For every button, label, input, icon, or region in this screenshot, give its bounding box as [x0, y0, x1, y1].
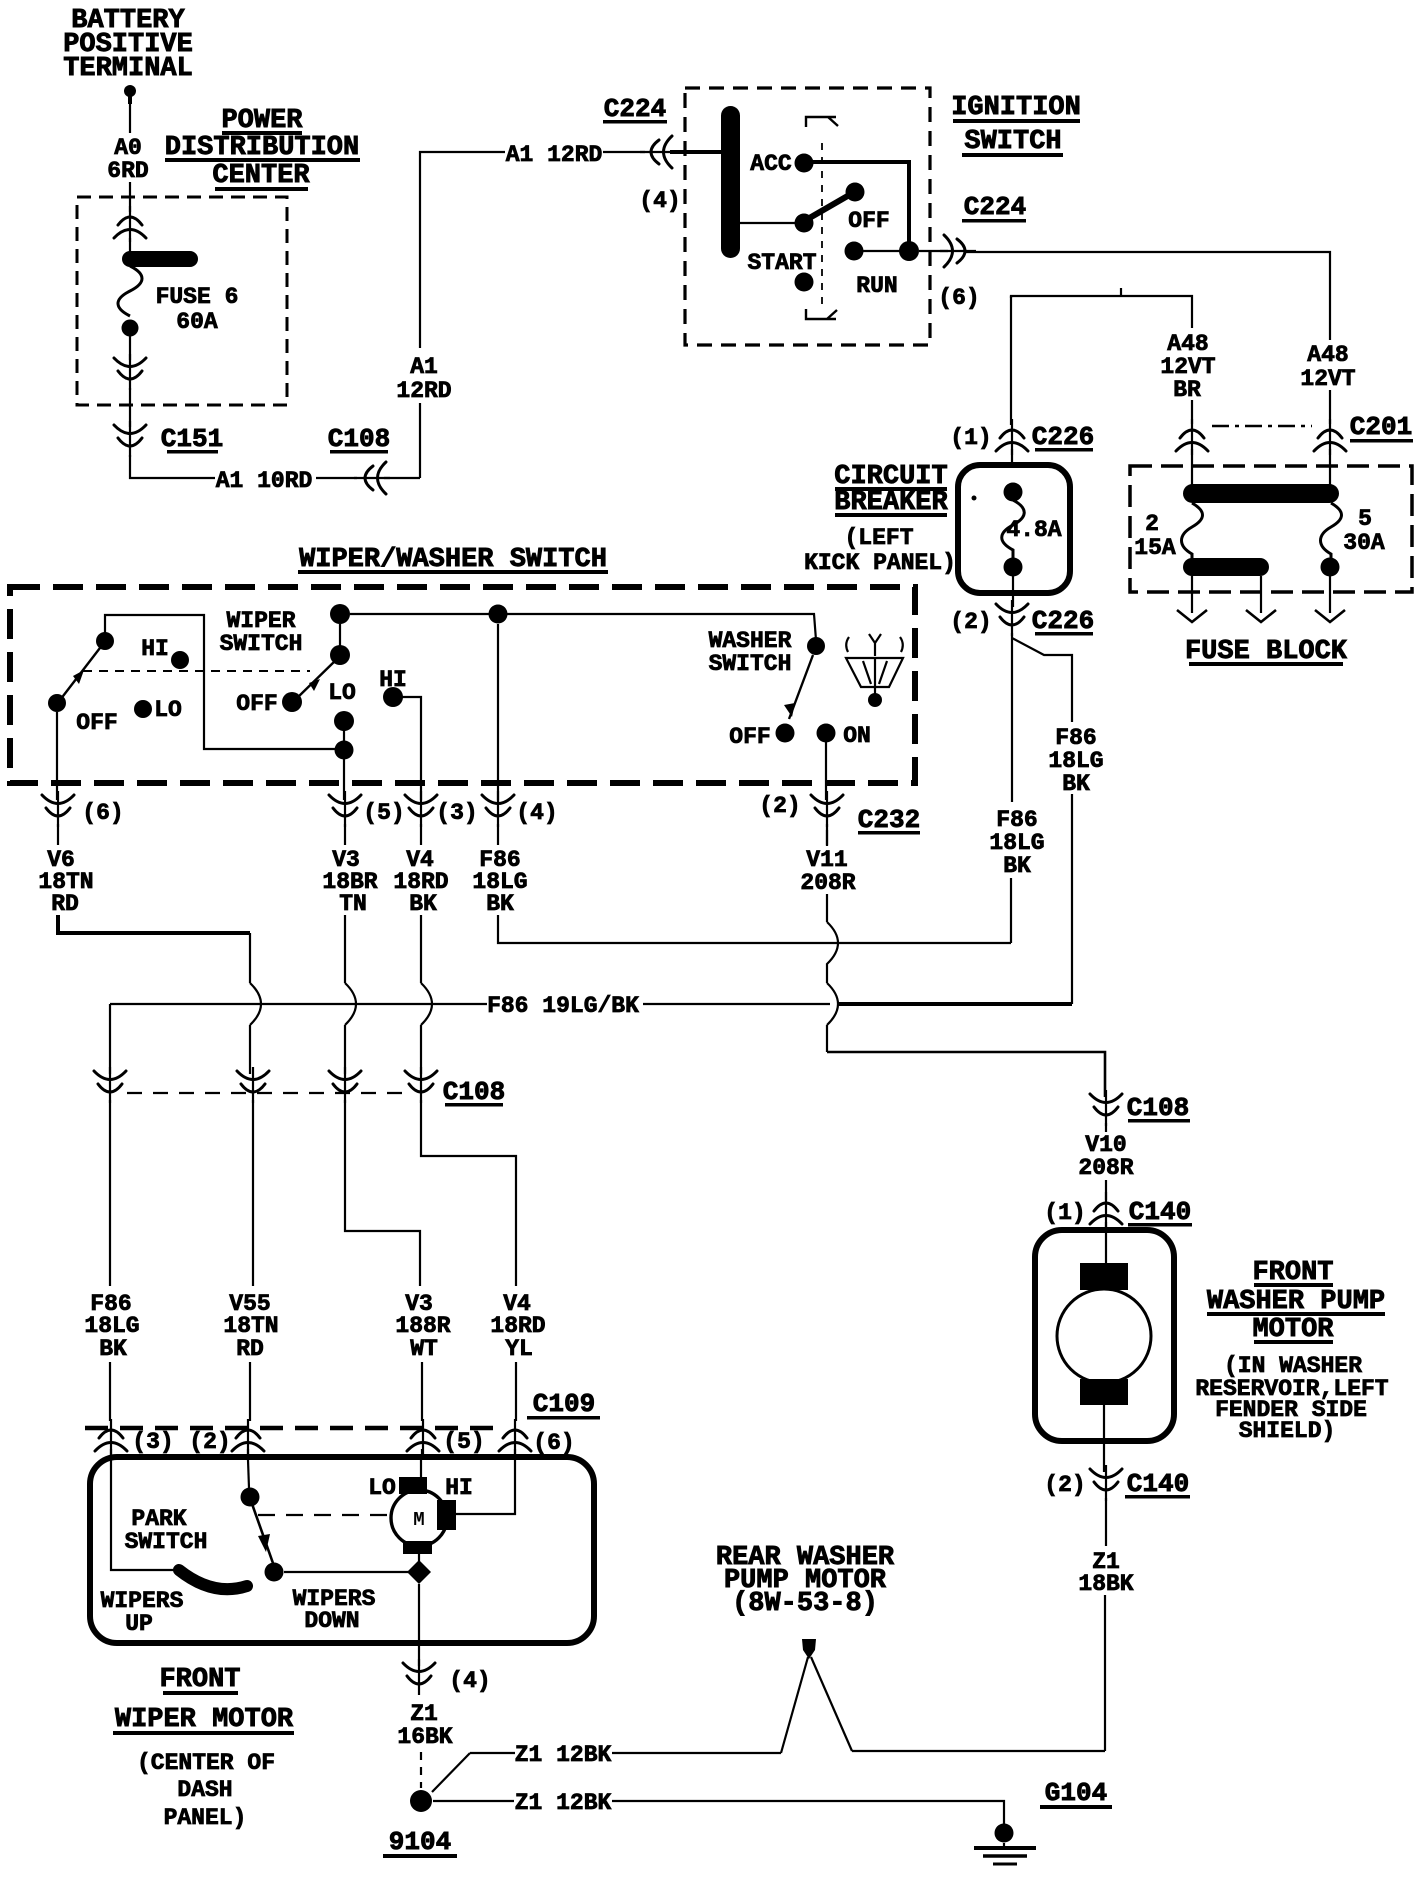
wire from ACC to RUN node	[812, 162, 909, 243]
svg-text:(3): (3)	[436, 800, 477, 826]
exit wire 1	[1191, 576, 1193, 613]
connector C224 chevron (output)	[940, 235, 976, 267]
svg-text:IGNITION: IGNITION	[951, 93, 1081, 123]
exit wire 2	[1260, 576, 1262, 613]
wire V11 drop	[825, 742, 827, 800]
wire F86 down from breaker	[1011, 633, 1013, 802]
wire	[1105, 1222, 1107, 1266]
wire	[919, 250, 948, 252]
svg-text:(8W-53-8): (8W-53-8)	[732, 1589, 878, 1619]
wiper/washer switch dashed box	[10, 587, 915, 783]
svg-text:ACC: ACC	[750, 151, 792, 177]
connector C201 dash-dot line	[1212, 425, 1312, 428]
wire down to C226	[1010, 296, 1012, 425]
wire V6 down with hop	[250, 933, 261, 1074]
wire	[1191, 449, 1193, 486]
pole1 contact OFF	[48, 694, 66, 712]
pole2 lever	[296, 659, 337, 699]
wire	[1105, 1123, 1107, 1132]
wire	[1011, 449, 1013, 467]
wire	[1105, 1498, 1107, 1546]
svg-text:(4): (4)	[639, 188, 680, 214]
svg-text:LO: LO	[328, 680, 356, 706]
svg-text:UP: UP	[125, 1611, 153, 1637]
svg-text:C201: C201	[1350, 412, 1412, 442]
ground symbol	[1003, 1843, 1005, 1847]
svg-text:SWITCH: SWITCH	[125, 1529, 208, 1555]
svg-text:5: 5	[1358, 506, 1372, 532]
connector C109 dashed row	[85, 1426, 500, 1431]
pole2 contact OFF	[282, 692, 302, 712]
wire park to motor	[284, 1571, 410, 1573]
connector C108 chevrons	[94, 1067, 126, 1103]
wire zigzag pole1 feed	[105, 615, 340, 749]
wire stubs into motor box	[110, 1449, 112, 1460]
washer contact OFF	[776, 724, 795, 743]
node RUN output junction	[899, 241, 919, 261]
svg-text:C109: C109	[533, 1389, 595, 1419]
svg-text:30A: 30A	[1343, 530, 1385, 556]
svg-text:M: M	[413, 1509, 424, 1531]
washer switch top contact	[807, 637, 825, 655]
svg-text:(2): (2)	[1044, 1472, 1085, 1498]
svg-text:(CENTER OF: (CENTER OF	[137, 1750, 275, 1776]
motor bottom tab	[403, 1541, 432, 1554]
wire	[1103, 1405, 1105, 1472]
svg-text:2: 2	[1145, 511, 1159, 537]
wire park sense	[111, 1460, 177, 1570]
wire LO feed	[420, 1460, 422, 1477]
wire into ignition switch	[670, 150, 723, 154]
mechanical link dashed	[258, 1514, 389, 1516]
svg-text:(4): (4)	[449, 1668, 490, 1694]
front washer pump motor box	[1035, 1230, 1174, 1441]
pole2 pivot contact	[330, 645, 350, 665]
connector C151 chevron	[114, 421, 146, 457]
wire	[1071, 794, 1073, 1004]
wire F86 from switch down	[498, 915, 1011, 943]
ignition switch feed bar	[721, 106, 740, 258]
svg-text:CENTER: CENTER	[212, 161, 310, 191]
fuse 5 output dot	[1321, 558, 1340, 577]
svg-text:A1 12RD: A1 12RD	[506, 142, 603, 168]
washer contact ON	[817, 724, 836, 743]
fuse block bus bar	[1183, 484, 1339, 503]
wire	[1329, 449, 1331, 486]
svg-text:208R: 208R	[800, 870, 855, 896]
svg-text:WT: WT	[410, 1336, 438, 1362]
svg-text:C108: C108	[1127, 1093, 1189, 1123]
svg-text:(6): (6)	[82, 800, 123, 826]
svg-text:BR: BR	[1173, 377, 1201, 403]
svg-text:YL: YL	[505, 1336, 533, 1362]
svg-text:6RD: 6RD	[107, 158, 148, 184]
svg-text:WIPER MOTOR: WIPER MOTOR	[115, 1705, 294, 1735]
wire	[1329, 390, 1331, 424]
wire from bar to wiper contact	[740, 222, 796, 224]
fuse block lower bar	[1183, 558, 1269, 576]
svg-text:C108: C108	[443, 1077, 505, 1107]
contact RUN	[845, 242, 864, 261]
wire	[316, 477, 357, 479]
svg-text:FUSE 6: FUSE 6	[156, 284, 239, 310]
wire A1 12RD rising	[419, 403, 421, 478]
svg-text:4.8A: 4.8A	[1006, 517, 1061, 543]
junction dot F86 feed	[489, 605, 508, 624]
wire A48 to fuse block right	[966, 252, 1330, 340]
wire F86 left end drop to C108	[109, 1004, 111, 1074]
washer motor top brush	[1080, 1263, 1128, 1290]
wire HI feed	[456, 1460, 515, 1514]
svg-text:(1): (1)	[950, 425, 991, 451]
svg-text:(1): (1)	[1044, 1200, 1085, 1226]
wire	[1191, 400, 1193, 424]
wire rear washer left leg	[781, 1657, 808, 1753]
wire V55 drop to C109	[252, 1100, 254, 1286]
park switch pivot contact	[241, 1488, 260, 1507]
washer motor bottom brush	[1080, 1379, 1128, 1405]
svg-text:TN: TN	[339, 891, 367, 917]
motor M circle	[391, 1490, 447, 1546]
battery positive terminal symbol	[124, 85, 136, 97]
svg-text:C108: C108	[328, 424, 390, 454]
wire F86 drop to C109	[109, 1100, 111, 1286]
wire	[1105, 1180, 1107, 1200]
washer nozzle icon	[846, 634, 903, 656]
svg-text:PANEL): PANEL)	[164, 1805, 247, 1831]
svg-text:HI: HI	[445, 1475, 473, 1501]
svg-text:BK: BK	[409, 891, 437, 917]
wire V6 from OFF contact	[56, 712, 58, 800]
svg-text:SWITCH: SWITCH	[964, 127, 1061, 157]
wire F86 19LG/BK long run left part	[110, 1003, 487, 1005]
rear washer feed marker	[802, 1639, 816, 1659]
svg-text:G104: G104	[1045, 1778, 1107, 1808]
wire to park switch	[248, 1460, 249, 1488]
wire Z1 12BK upper	[470, 1752, 515, 1754]
wire V11 down with two hops	[827, 830, 838, 1052]
svg-text:BK: BK	[1062, 771, 1090, 797]
svg-text:DOWN: DOWN	[304, 1608, 359, 1634]
wire	[129, 336, 131, 360]
connector C109 chevrons	[95, 1419, 127, 1455]
svg-text:16BK: 16BK	[397, 1724, 452, 1750]
ground G104 node	[995, 1824, 1014, 1843]
svg-text:BK: BK	[99, 1336, 127, 1362]
svg-text:(4): (4)	[516, 800, 557, 826]
wire	[1104, 1595, 1106, 1751]
svg-text:(LEFT: (LEFT	[844, 525, 913, 551]
front wiper motor box	[90, 1457, 594, 1643]
svg-text:LO: LO	[368, 1475, 396, 1501]
detent symbol bottom	[806, 309, 837, 319]
svg-text:(5): (5)	[363, 800, 404, 826]
svg-text:A48: A48	[1307, 342, 1348, 368]
wire A48 branch to breaker and fuse block	[1011, 296, 1192, 328]
fuse F6 top bar	[122, 251, 198, 267]
svg-text:(5): (5)	[443, 1429, 484, 1455]
connector C108 chevron (in-line)	[354, 462, 390, 494]
svg-text:HI: HI	[141, 636, 169, 662]
svg-text:60A: 60A	[176, 309, 218, 335]
circuit breaker bottom terminal	[1004, 558, 1023, 577]
wire down then right	[130, 455, 215, 478]
wire	[1012, 576, 1014, 607]
splice S104	[410, 1790, 432, 1812]
wire	[1010, 878, 1012, 943]
wire	[343, 721, 345, 750]
wire A0 from battery to PDC	[129, 104, 131, 133]
svg-text:(2): (2)	[759, 793, 800, 819]
mechanical link dashed	[821, 143, 823, 309]
svg-text:(6): (6)	[938, 285, 979, 311]
svg-text:OFF: OFF	[848, 208, 889, 234]
fuse 2 element	[1182, 503, 1203, 560]
wire rear washer right leg	[811, 1657, 852, 1751]
wire V3 jog down	[345, 1100, 420, 1286]
wire stubs below C232	[57, 824, 59, 845]
wire V3 down with hop	[345, 915, 356, 1074]
ignition switch common contact	[795, 214, 814, 233]
park switch lever	[251, 1501, 274, 1566]
wire F86 19LG/BK long run right part	[643, 1003, 830, 1005]
wire V4 from HI	[402, 697, 421, 800]
ignition switch lever	[806, 194, 851, 220]
contact OFF	[846, 183, 865, 202]
wire V4 jog down	[421, 1100, 516, 1286]
mechanical link dashed	[83, 670, 310, 672]
svg-text:9104: 9104	[389, 1827, 451, 1857]
pole2 bottom contact	[335, 741, 354, 760]
svg-text:START: START	[747, 250, 816, 276]
svg-text:KICK PANEL): KICK PANEL)	[804, 550, 956, 576]
wire F86 drop	[497, 624, 499, 800]
svg-text:OFF: OFF	[236, 691, 277, 717]
svg-text:SHIELD): SHIELD)	[1239, 1418, 1336, 1444]
svg-text:Z1 12BK: Z1 12BK	[515, 1790, 612, 1816]
svg-text:RD: RD	[51, 891, 79, 917]
svg-text:15A: 15A	[1134, 535, 1176, 561]
wire motor to ground node	[418, 1544, 420, 1561]
circuit breaker element	[1002, 500, 1025, 558]
svg-text:A1 10RD: A1 10RD	[216, 468, 313, 494]
connector chevron inside PDC top	[114, 206, 146, 242]
svg-text:BK: BK	[486, 891, 514, 917]
svg-text:Z1 12BK: Z1 12BK	[515, 1742, 612, 1768]
svg-text:SWITCH: SWITCH	[709, 651, 792, 677]
svg-text:TERMINAL: TERMINAL	[63, 54, 193, 84]
svg-text:BK: BK	[1003, 853, 1031, 879]
wire diagonal to splice	[432, 1753, 470, 1792]
wire	[420, 152, 505, 348]
wire	[129, 238, 131, 253]
svg-text:C140: C140	[1129, 1197, 1191, 1227]
wire	[129, 388, 131, 427]
svg-text:A1: A1	[410, 354, 438, 380]
svg-text:C226: C226	[1032, 422, 1094, 452]
wire	[854, 250, 909, 252]
washer motor armature circle	[1057, 1289, 1151, 1383]
svg-text:LO: LO	[154, 697, 182, 723]
svg-text:C232: C232	[858, 805, 920, 835]
wire Z1 out of motor	[418, 1584, 420, 1666]
junction dot below fuse	[122, 320, 139, 337]
svg-text:RUN: RUN	[856, 273, 897, 299]
svg-text:(3): (3)	[132, 1429, 173, 1455]
pole1 lever	[60, 644, 103, 700]
svg-text:RD: RD	[236, 1336, 264, 1362]
wire bus to washer switch	[350, 614, 816, 640]
connector chevron PDC bottom	[114, 354, 146, 390]
wire V11 to V10 run	[827, 1052, 1105, 1097]
wire	[129, 182, 131, 212]
svg-text:12VT: 12VT	[1300, 366, 1355, 392]
fuse 5 element	[1321, 503, 1342, 558]
exit wire 3	[1329, 576, 1331, 613]
svg-text:OFF: OFF	[76, 710, 117, 736]
power distribution center dashed box	[77, 197, 287, 405]
svg-text:DASH: DASH	[177, 1777, 232, 1803]
motor common junction diamond	[407, 1560, 431, 1584]
svg-text:C140: C140	[1127, 1469, 1189, 1499]
wire Z1 12BK lower	[433, 1800, 514, 1802]
wire dashed stub	[420, 1752, 422, 1788]
fuse F6 element	[118, 266, 142, 316]
connector C108 chevron (V10)	[1090, 1090, 1122, 1126]
svg-text:208R: 208R	[1078, 1155, 1133, 1181]
circuit breaker box	[958, 465, 1070, 593]
svg-text:ON: ON	[843, 723, 871, 749]
fuse block dashed box	[1130, 466, 1412, 592]
pole2 top contact	[330, 604, 350, 624]
svg-text:18BK: 18BK	[1078, 1571, 1133, 1597]
svg-text:(2): (2)	[950, 609, 991, 635]
svg-text:C151: C151	[161, 424, 223, 454]
pole1 contact LO	[134, 700, 152, 718]
circuit breaker top terminal	[1004, 483, 1023, 502]
wire V4 down with hop	[421, 915, 432, 1074]
wire F86 diagonal branch	[1012, 638, 1072, 722]
wire to washer pump ground	[852, 1750, 1105, 1752]
wire	[339, 624, 341, 647]
wire	[603, 151, 645, 153]
svg-text:C224: C224	[964, 192, 1026, 222]
svg-text:FRONT: FRONT	[159, 1665, 240, 1695]
svg-text:C224: C224	[604, 94, 666, 124]
park switch arm (wipers up)	[179, 1570, 247, 1589]
svg-text:12RD: 12RD	[396, 378, 451, 404]
svg-text:(6): (6)	[533, 1430, 574, 1456]
connector C201 chevrons	[1176, 419, 1208, 455]
pole1 pivot contact	[96, 632, 114, 650]
speck	[972, 496, 977, 501]
svg-text:(2): (2)	[189, 1429, 230, 1455]
wire	[384, 477, 420, 479]
svg-text:SWITCH: SWITCH	[220, 631, 303, 657]
junction tick	[1120, 288, 1122, 296]
wire V3 drop	[343, 759, 345, 800]
wire V6 run	[58, 915, 250, 933]
connector C224 chevron (in-line)	[640, 136, 676, 168]
ignition switch dashed box	[685, 88, 930, 345]
svg-text:OFF: OFF	[729, 724, 770, 750]
washer switch lever	[789, 655, 813, 719]
park switch moving contact	[265, 1563, 284, 1582]
detent symbol top	[806, 117, 838, 127]
svg-text:C226: C226	[1032, 606, 1094, 636]
svg-text:F86 19LG/BK: F86 19LG/BK	[487, 993, 639, 1019]
connector pin 4 chevron	[403, 1659, 435, 1695]
